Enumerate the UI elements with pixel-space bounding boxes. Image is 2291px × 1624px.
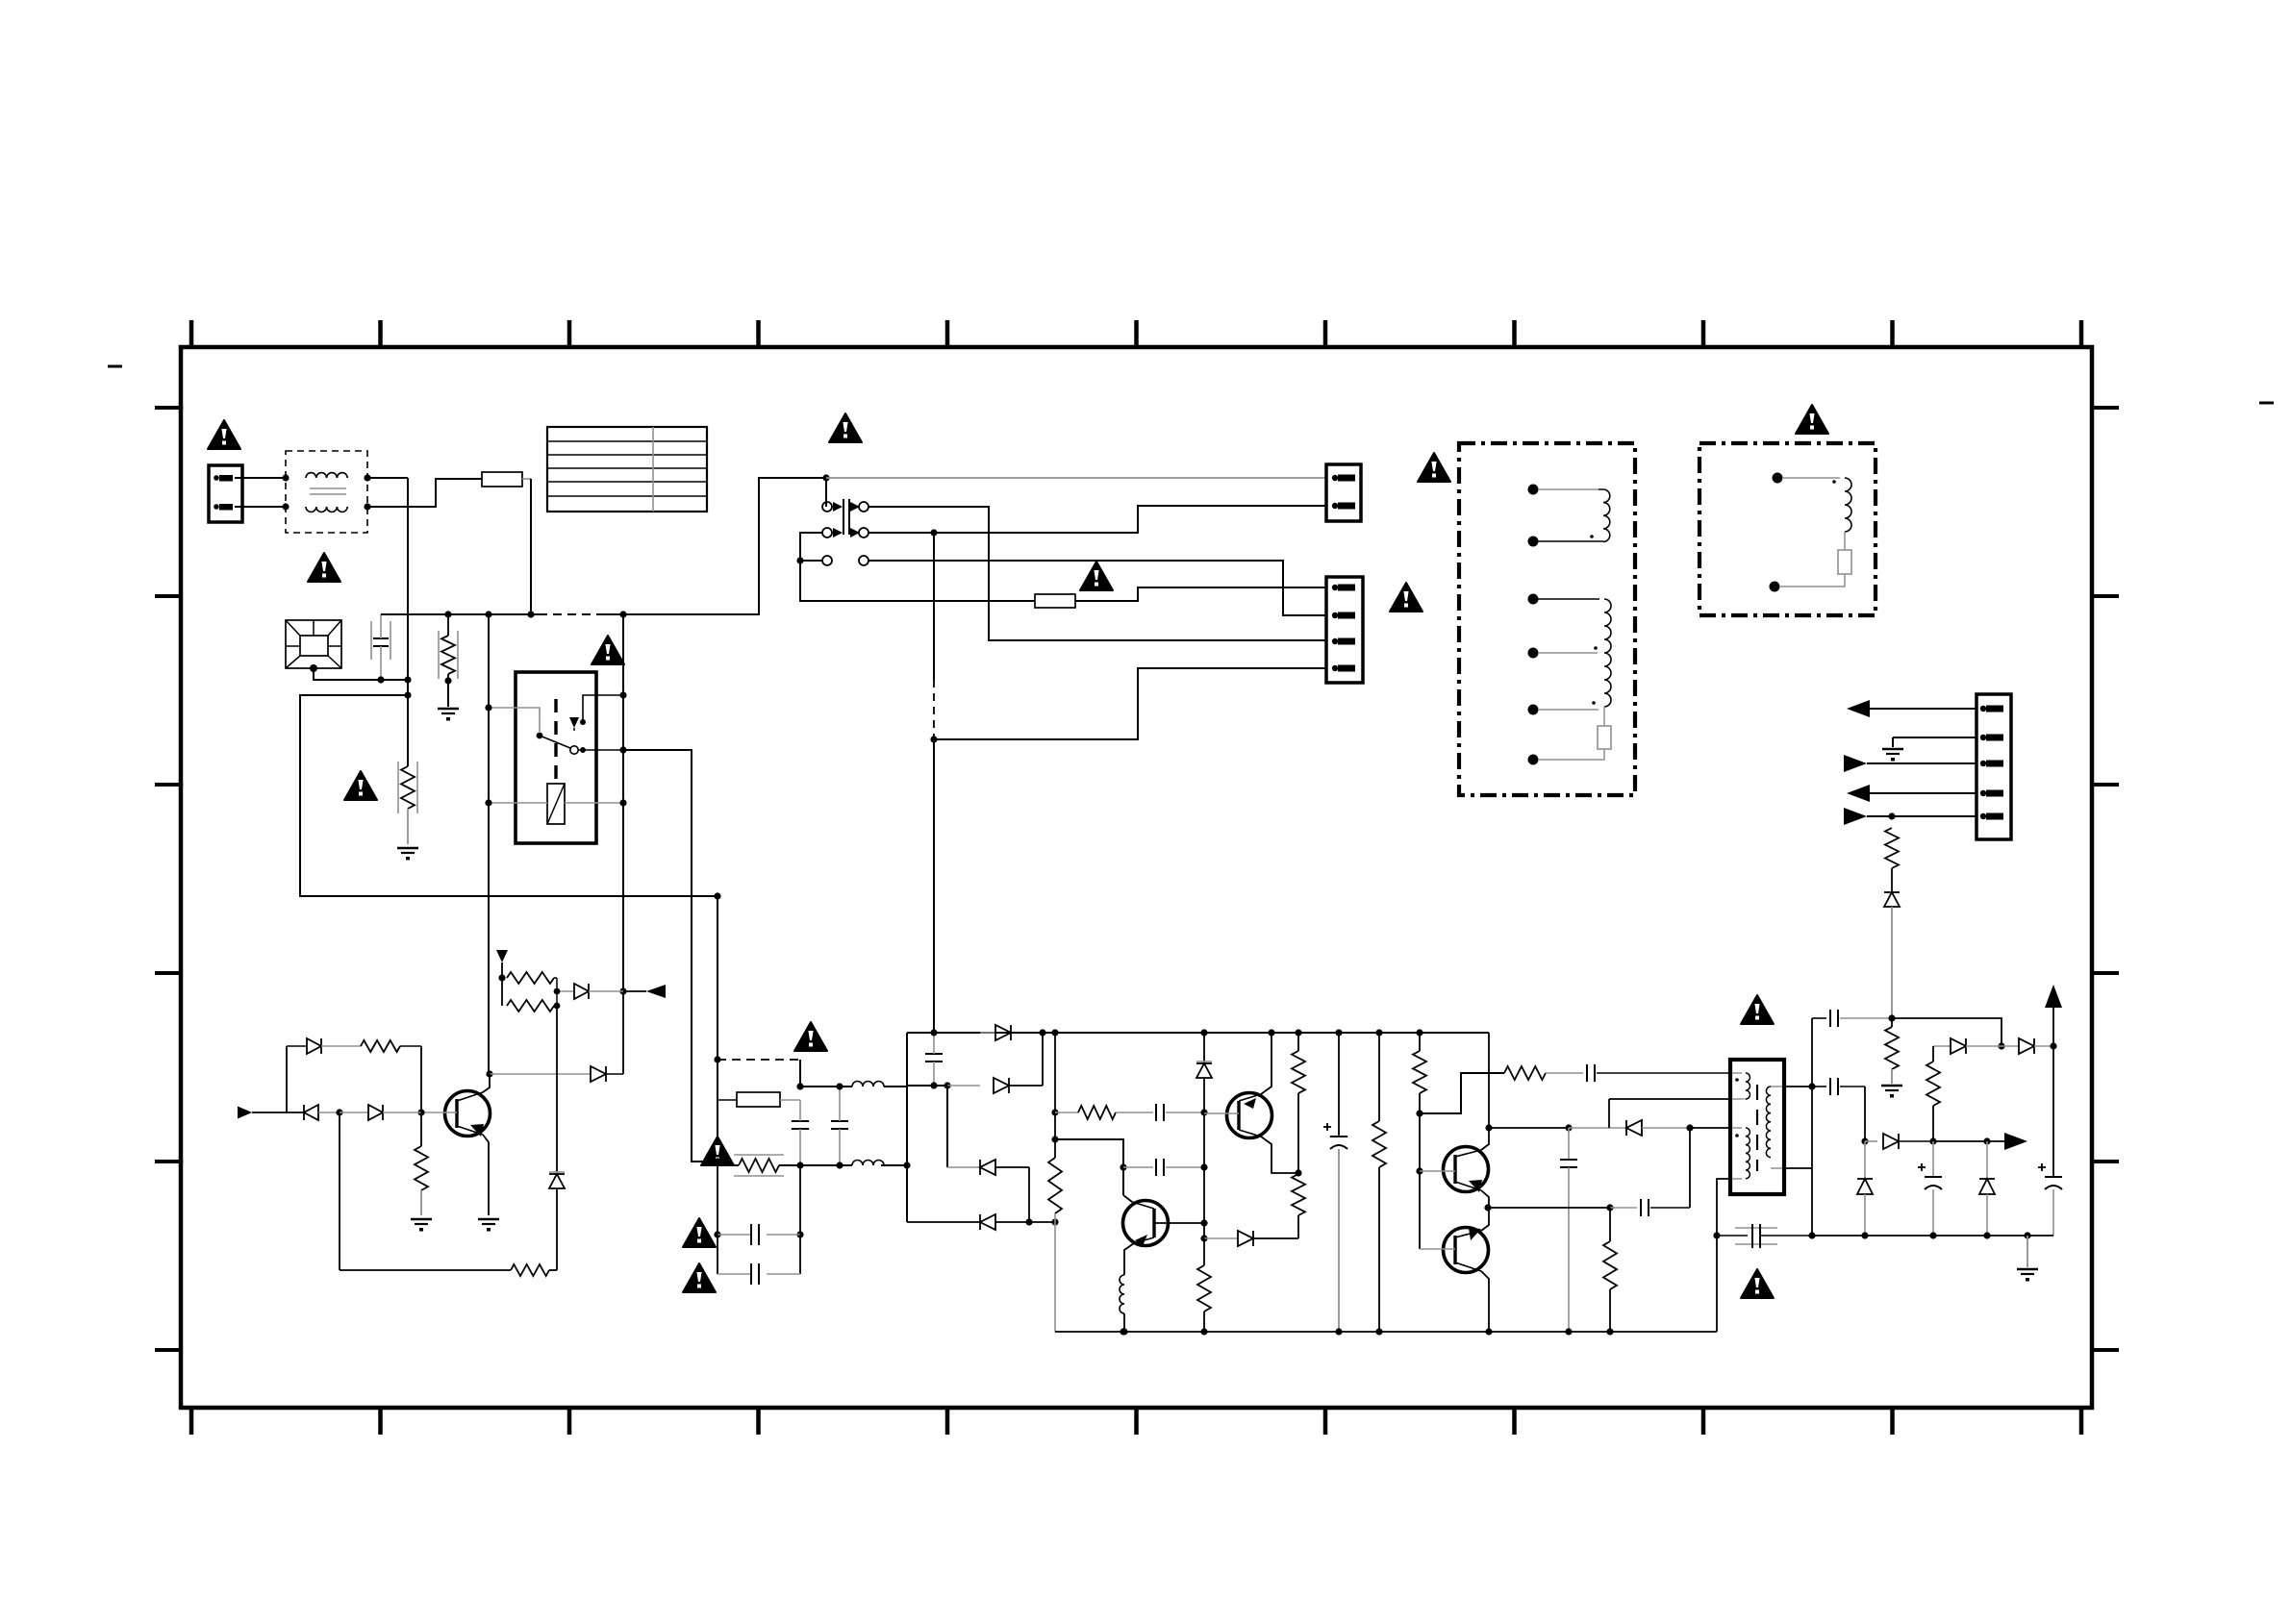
wire rect2 top bbox=[1892, 1018, 2005, 1050]
junction x424 degauss row bbox=[404, 676, 411, 683]
wire gnd drop bbox=[2027, 1236, 2028, 1267]
wire inlet pin1 to filter bbox=[235, 477, 286, 479]
resistor R4 bbox=[1197, 1238, 1211, 1336]
diode D5 zener bbox=[1196, 1029, 1212, 1112]
fuse F1 bbox=[482, 472, 531, 487]
resistor R14 bbox=[340, 1264, 549, 1276]
arrow feed down bbox=[496, 950, 508, 978]
transistor Q5 bbox=[1420, 1208, 1493, 1336]
wire pole2-left to fuse F2 bbox=[800, 533, 1035, 601]
wire feedback loop bbox=[549, 1269, 557, 1271]
capacitor C7 bbox=[1116, 1104, 1208, 1121]
junction bus x508 bbox=[485, 611, 491, 617]
resistor R1 dropper bbox=[1048, 1033, 1062, 1332]
warning triangle W2 bbox=[308, 553, 340, 582]
inductor L3 bbox=[1120, 1275, 1128, 1336]
fuse F2 bbox=[1035, 594, 1075, 608]
wire Q1 base lead bbox=[417, 1109, 457, 1115]
warning triangle W12 bbox=[683, 1263, 716, 1292]
wire live to P2 pin1 bbox=[826, 477, 1326, 479]
inductor L1 bbox=[852, 1082, 884, 1087]
relay actuator dashed bbox=[554, 699, 557, 781]
varistor V2 bbox=[398, 762, 417, 844]
capacitor C4 X-cap bbox=[714, 1165, 803, 1245]
wire Q2 collector link bbox=[1055, 1139, 1127, 1195]
capacitor C8 bbox=[1123, 1159, 1208, 1176]
wire bridge top bus bbox=[907, 1032, 1489, 1034]
wire fuse F2 to pin1 of P3 bbox=[1075, 587, 1326, 601]
resistor R8 bbox=[1504, 1066, 1546, 1080]
ground G5 bbox=[2017, 1269, 2038, 1282]
wire T3 bottom pin bbox=[1713, 1179, 1730, 1332]
transistor Q1 bbox=[445, 1091, 491, 1137]
wire bias loop up bbox=[287, 1046, 306, 1112]
wire dashed bypass bbox=[718, 1060, 800, 1087]
ground G4 bbox=[1881, 1086, 1902, 1098]
wire x746 down bbox=[717, 896, 718, 1162]
wire T3 sec top out bbox=[1784, 1083, 1816, 1089]
line filter core bbox=[310, 488, 346, 494]
diode D19 bbox=[340, 1105, 421, 1120]
diode D1 bbox=[994, 1029, 1046, 1093]
wire inlet pin2 to filter bbox=[235, 506, 286, 508]
relay switch contact bbox=[537, 733, 586, 755]
diode D6 bbox=[1204, 1231, 1298, 1246]
inductor L2 bbox=[852, 1161, 884, 1166]
diode D7b bbox=[1569, 1120, 1694, 1136]
warning triangle W4 bbox=[829, 413, 862, 442]
warning triangle W9 bbox=[794, 1022, 827, 1051]
wire Q1 emitter bbox=[483, 1135, 489, 1215]
warning triangle W3 bbox=[592, 636, 624, 664]
wire P4 pin3 bbox=[1844, 755, 1976, 772]
transformer T2 box bbox=[1699, 443, 1876, 615]
wire x1252 mid bbox=[1200, 1112, 1207, 1242]
arrow input left bbox=[238, 1107, 304, 1119]
wire x1673 upper bbox=[1609, 1099, 1730, 1128]
resistor R3 bbox=[1292, 1169, 1305, 1238]
capacitor C17 electrolytic bbox=[2038, 1046, 2062, 1236]
wire row1130 bbox=[800, 1086, 907, 1087]
warning triangle W14 bbox=[1741, 995, 1774, 1024]
arrow B+ up bbox=[2045, 985, 2062, 1046]
wire drive row2 bbox=[1489, 1124, 1573, 1131]
capacitor C16 electrolytic bbox=[1918, 1141, 1942, 1239]
transformer T3 box bbox=[1730, 1060, 1784, 1194]
transistor Q2 bbox=[1123, 1195, 1208, 1275]
wire secondary ground bus bbox=[1812, 1232, 2053, 1238]
diode D15 bbox=[591, 1066, 623, 1082]
bottom border ticks bbox=[191, 1408, 2081, 1435]
warning triangle W15 bbox=[1741, 1269, 1774, 1298]
wire to T3 pin3 bbox=[1690, 1127, 1730, 1129]
wire output node row bbox=[1488, 1204, 1614, 1211]
resistor R10 bbox=[1885, 1018, 1899, 1084]
diode D10 bbox=[1933, 1038, 2001, 1054]
wire relay common stub bbox=[578, 746, 627, 753]
wire degauss to row bbox=[314, 668, 408, 680]
diode D21 bbox=[307, 1038, 361, 1054]
wire relay right vertical x648 bbox=[622, 614, 624, 991]
diode D12 bbox=[1883, 1134, 1933, 1149]
diode D11 bbox=[2001, 1038, 2057, 1054]
junction bus x859 bbox=[822, 474, 829, 481]
right border ticks bbox=[2092, 408, 2119, 1350]
junction x832 row1 bbox=[796, 1083, 803, 1089]
resistor R12 bbox=[498, 972, 560, 994]
ground G7 bbox=[411, 1219, 432, 1232]
diode D18 bbox=[304, 1105, 343, 1120]
line filter L0 box bbox=[286, 451, 367, 533]
resistor R6 bbox=[1372, 1029, 1386, 1335]
junction pole2 x832 bbox=[796, 557, 803, 563]
connector P3 bbox=[1326, 577, 1363, 683]
warning triangle W1 bbox=[208, 420, 240, 449]
wire P4 pin5 bbox=[1844, 808, 1976, 825]
wire pole1 to pin3 of P3 bbox=[869, 507, 1326, 640]
resistor R11 bbox=[1926, 1046, 1940, 1145]
junction bus x551 bbox=[527, 611, 534, 617]
junction x746 dash bbox=[714, 1056, 720, 1062]
transformer T3 winding 2 bbox=[1732, 1128, 1750, 1179]
capacitor C9 electrolytic bbox=[1323, 1029, 1347, 1335]
ground G3 bbox=[1882, 749, 1903, 762]
junction x971 pin4 node bbox=[930, 736, 937, 742]
transformer T1 box bbox=[1459, 443, 1635, 795]
wire output row B+ bbox=[1865, 1140, 1877, 1142]
degaussing coil DG bbox=[286, 620, 341, 672]
wire T3 sec bottom out bbox=[1784, 1087, 1812, 1236]
wire filter L out bbox=[367, 477, 408, 479]
relay RY1 box bbox=[516, 672, 596, 843]
resistor R15 base bbox=[415, 1112, 428, 1215]
capacitor C11 bbox=[1560, 1128, 1577, 1336]
wire collector node bbox=[486, 1070, 591, 1077]
capacitor C12 bbox=[1610, 1128, 1690, 1216]
ground G1 bbox=[438, 709, 459, 721]
wire loop to base bbox=[339, 1112, 340, 1270]
junction x971 on switch line bbox=[930, 529, 937, 536]
warning triangle W7 bbox=[1418, 453, 1450, 482]
transistor Q4 bbox=[1420, 1128, 1489, 1208]
transistor Q3 bbox=[1204, 1029, 1298, 1173]
junction x424 loop bbox=[404, 691, 411, 698]
diode D3 bbox=[980, 1160, 1033, 1226]
transformer T3 winding 1 bbox=[1732, 1073, 1750, 1099]
resistor R5 bbox=[1292, 1029, 1305, 1173]
warning triangle W10 bbox=[701, 1137, 734, 1165]
notes table bbox=[547, 427, 707, 512]
wire x648 tail bbox=[622, 991, 624, 1074]
junction row1212 x746 bbox=[714, 1158, 720, 1164]
capacitor C2 bbox=[792, 1100, 809, 1165]
varistor V1 bbox=[439, 611, 458, 684]
wire live vertical x424 bbox=[407, 478, 409, 766]
wire P4 pin2 to ground bbox=[1893, 737, 1976, 747]
line filter winding bottom bbox=[282, 503, 370, 512]
junction AC2 bbox=[903, 1162, 910, 1168]
ground G2 bbox=[397, 848, 418, 861]
wire pole2-right to P2 pin2 bbox=[869, 506, 1326, 533]
resistor R7 bbox=[1413, 1029, 1426, 1249]
thermistor TH1 bbox=[734, 1155, 784, 1176]
line filter winding top bbox=[282, 473, 370, 482]
capacitor C10 bbox=[1546, 1064, 1730, 1082]
resistor R20 bbox=[1885, 828, 1899, 892]
wire bridge left riser bbox=[906, 1033, 908, 1222]
junction bus2 x1168 bbox=[1120, 1328, 1126, 1335]
left border ticks bbox=[155, 408, 181, 1350]
transformer T1 secondary winding bbox=[1528, 594, 1612, 765]
capacitor C13 Y-cap bbox=[1717, 1224, 1816, 1248]
wire pole3-right to pin2 of P3 bbox=[869, 561, 1326, 615]
warning triangle W8 bbox=[1796, 405, 1828, 434]
wire loop left bbox=[300, 695, 718, 896]
warning triangle W6 bbox=[1390, 583, 1422, 612]
wire P4 pin1 bbox=[1847, 700, 1976, 717]
wire pin4 link bbox=[934, 668, 1326, 739]
wire relay coil right stub bbox=[565, 799, 627, 806]
wire primary bottom bus bbox=[1055, 1331, 1717, 1333]
wire row1212 bbox=[718, 1162, 907, 1165]
wire fuse F1 to bus bbox=[530, 479, 532, 614]
left page mark bbox=[108, 365, 122, 368]
junction Q4Q5 emitters bbox=[1484, 1204, 1491, 1211]
resistor R16 bbox=[361, 1040, 421, 1112]
diode D13 bbox=[1857, 1141, 1873, 1239]
power switch S1 bbox=[822, 499, 869, 565]
diode D16 bbox=[557, 984, 623, 999]
capacitor C14 bbox=[1812, 1010, 1896, 1087]
junction loop x746 bbox=[714, 892, 720, 899]
wire snubber row bbox=[1055, 1112, 1078, 1113]
connector P2 bbox=[1326, 464, 1361, 521]
warning triangle W13 bbox=[344, 771, 377, 800]
resistor R9 bbox=[1603, 1208, 1617, 1336]
border frame bbox=[181, 347, 2092, 1408]
wire out row arrow bbox=[1933, 1133, 2027, 1150]
wire relay arrow stub bbox=[580, 691, 627, 725]
transformer T3 core dashes bbox=[1756, 1085, 1758, 1171]
diode D2 bbox=[980, 1025, 1059, 1040]
junction x648 arrow row bbox=[619, 987, 626, 994]
wire filter N out bbox=[367, 479, 482, 507]
warning triangle W5 bbox=[1080, 562, 1113, 590]
diode D14 zener bbox=[1979, 1141, 1995, 1239]
diode D4 bbox=[907, 1214, 1059, 1230]
connector P4 bbox=[1976, 694, 2011, 839]
wire switch feed bbox=[825, 478, 827, 507]
wire x971 to bridge bus bbox=[933, 739, 935, 1033]
wire relay left vertical x508 bbox=[488, 614, 490, 1074]
wire x971 drop bbox=[933, 533, 935, 737]
relay arrow bbox=[569, 717, 579, 731]
top border ticks bbox=[191, 320, 2081, 347]
wire x1548 collector link bbox=[1485, 1033, 1492, 1132]
wire Q1 collector bbox=[483, 1074, 490, 1092]
resistor R2 bbox=[1078, 1106, 1116, 1119]
capacitor C6 bbox=[925, 1029, 943, 1088]
junction bus x648 bbox=[619, 611, 626, 617]
warning triangle W11 bbox=[683, 1218, 716, 1247]
wire relay pivot stub bbox=[485, 704, 540, 732]
capacitor C3 bbox=[831, 1083, 848, 1168]
wire relay out to x719 bbox=[623, 750, 718, 1162]
resistor R13 bbox=[502, 978, 560, 1012]
wire P4 pin4 bbox=[1847, 785, 1976, 802]
wire mains bus bbox=[381, 478, 826, 614]
capacitor C15 bbox=[1812, 1078, 1869, 1145]
diode D17 bbox=[549, 1172, 565, 1270]
wire stub arrow bbox=[623, 985, 666, 998]
junction row1212 x832 bbox=[796, 1162, 803, 1168]
relay coil bbox=[547, 784, 565, 824]
transformer T1 primary winding bbox=[1528, 485, 1610, 547]
wire x579 down bbox=[556, 991, 558, 1172]
wire pole3-left tie bbox=[800, 560, 822, 562]
wire AC1 row bbox=[907, 1082, 980, 1088]
transformer T2 winding bbox=[1770, 473, 1852, 592]
ground G6 bbox=[478, 1219, 499, 1232]
fuse F3 bbox=[718, 1092, 800, 1107]
wire AC1 drop bbox=[947, 1086, 980, 1167]
wire relay coil left stub bbox=[485, 799, 547, 806]
transformer T3 secondary bbox=[1766, 1087, 1782, 1168]
connector P1 AC inlet bbox=[209, 465, 242, 522]
right page mark bbox=[2259, 402, 2274, 405]
capacitor C1 bbox=[371, 614, 390, 684]
capacitor C5 X-cap bbox=[718, 1235, 800, 1285]
wire varistor to ground bbox=[447, 681, 449, 707]
diode D20 bbox=[1884, 892, 1900, 1018]
wire RC drive row bbox=[1420, 1073, 1504, 1113]
